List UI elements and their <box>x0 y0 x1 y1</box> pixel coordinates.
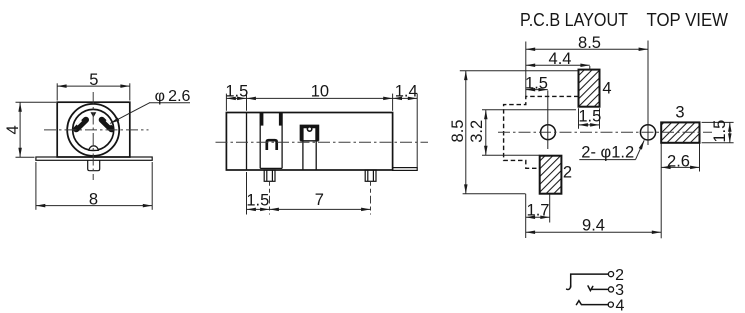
right solder leg <box>365 170 376 181</box>
dimension 4.4 <box>526 65 590 70</box>
bottom solder tab <box>88 160 100 170</box>
pin 2 terminal circle <box>608 272 613 277</box>
left contact bar <box>76 120 86 129</box>
pin 4 contact <box>576 301 608 305</box>
tip pin upper block <box>300 125 318 141</box>
dimension 3.2 (left vertical) <box>482 110 576 155</box>
svg-text:2: 2 <box>563 164 572 182</box>
svg-text:3: 3 <box>675 104 684 122</box>
dimension 1.5 (bottom left) <box>247 208 270 210</box>
jack body (front square) <box>57 102 130 157</box>
svg-text:4: 4 <box>616 297 625 313</box>
mounting flange strip <box>36 157 152 160</box>
hole right vertical centerline <box>647 41 649 146</box>
dimension 1.5 (pad 4 width) <box>579 108 600 129</box>
horizontal centerline <box>44 129 149 131</box>
svg-text:1.5: 1.5 <box>711 120 729 143</box>
svg-text:8.5: 8.5 <box>578 34 601 52</box>
svg-text:1.5: 1.5 <box>578 108 601 126</box>
svg-text:3.2: 3.2 <box>468 120 486 143</box>
dimension 7 (bottom) <box>270 208 371 210</box>
jack barrel inner circle <box>73 109 114 150</box>
dimension 1.5 (hole offset) <box>526 89 548 91</box>
center pin tip (triangle) <box>91 112 97 117</box>
svg-text:8: 8 <box>89 191 98 209</box>
dimension 1.5 (top left) <box>226 97 246 99</box>
top dimension extension lines <box>226 94 417 168</box>
svg-text:4: 4 <box>602 79 611 97</box>
dimension 1.5 (pad 3 height) <box>702 122 734 142</box>
dashed body outline <box>504 96 579 168</box>
pin 4 terminal circle <box>608 302 613 307</box>
leader phi 2.6 <box>110 103 190 124</box>
svg-text:4: 4 <box>4 125 22 134</box>
svg-text:1.5: 1.5 <box>525 74 548 92</box>
pin 3 contact <box>588 286 608 291</box>
svg-text:4.4: 4.4 <box>549 50 572 68</box>
left extension line (top dims) <box>525 42 527 97</box>
right bottom tab <box>393 168 418 171</box>
vertical centerline <box>92 92 94 180</box>
dimension 1.7 <box>526 194 550 238</box>
svg-text:7: 7 <box>315 191 324 209</box>
left solder leg <box>264 170 275 181</box>
right leg centerline <box>370 182 372 200</box>
leg centerline extensions <box>270 200 371 215</box>
left leg centerline <box>269 182 271 200</box>
bottom notch bump <box>89 146 98 151</box>
hole left (phi 1.2) <box>541 125 556 140</box>
svg-text:1.4: 1.4 <box>395 82 418 100</box>
right contact bar <box>102 120 112 129</box>
horizontal centerline <box>498 131 712 133</box>
left cap division line <box>246 113 248 171</box>
shield pin housing <box>260 113 282 169</box>
svg-text:1.7: 1.7 <box>527 201 550 219</box>
dimension 4 (left height) <box>16 102 57 157</box>
svg-text:9.4: 9.4 <box>582 217 605 235</box>
shield pin hook detail <box>267 140 277 150</box>
pin 3 terminal circle <box>608 287 613 292</box>
hole right (phi 1.2) <box>640 125 655 140</box>
pad 2 (hatched) <box>540 156 562 194</box>
svg-text:2.6: 2.6 <box>667 153 690 171</box>
svg-text:1.5: 1.5 <box>246 192 269 210</box>
svg-text:TOP VIEW: TOP VIEW <box>647 10 729 30</box>
label 2-phi1.2 leader <box>579 140 644 159</box>
hole left vertical centerline <box>547 90 549 149</box>
dimension 10 (top middle) <box>247 97 393 99</box>
dimension 8 (bottom width) <box>36 162 152 210</box>
dimension 5 (top width) <box>57 83 130 100</box>
svg-text:1.5: 1.5 <box>225 82 248 100</box>
svg-text:φ 2.6: φ 2.6 <box>155 88 191 105</box>
svg-text:5: 5 <box>89 71 98 89</box>
svg-text:8.5: 8.5 <box>449 120 467 143</box>
dimension 1.4 (top right) <box>393 97 418 99</box>
tip pin lower body <box>303 141 316 170</box>
dimension 9.4 <box>526 144 662 239</box>
svg-text:2- φ1.2: 2- φ1.2 <box>581 143 634 161</box>
pin 2 contact lever <box>567 274 609 289</box>
jack barrel outer circle <box>67 104 119 156</box>
dimension 8.5 (left vertical) <box>460 71 578 194</box>
svg-text:P.C.B LAYOUT: P.C.B LAYOUT <box>520 10 628 30</box>
pad 3 (hatched) <box>661 122 699 142</box>
svg-text:10: 10 <box>311 82 329 100</box>
dimension 8.5 (top) <box>526 48 648 50</box>
pad 4 (hatched) <box>579 70 600 107</box>
side view centerline <box>216 141 429 143</box>
dimension 2.6 <box>661 143 699 171</box>
bottom dimension extension line <box>246 172 248 215</box>
connector body (side outline) <box>226 113 392 171</box>
